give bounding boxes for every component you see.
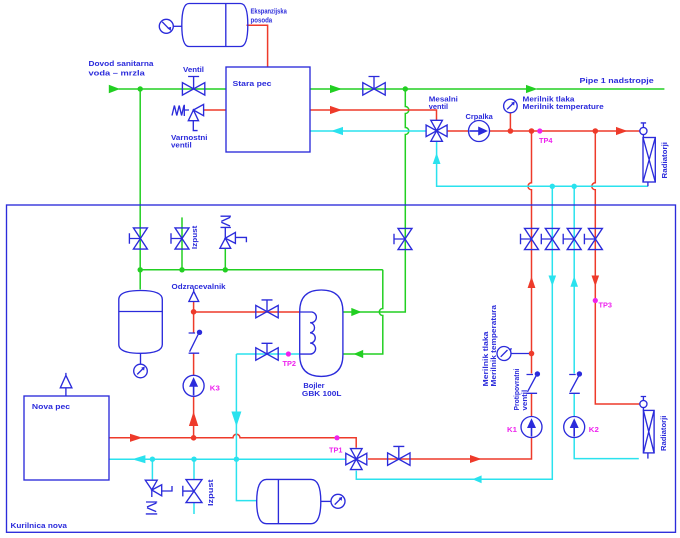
svg-text:Pipe 1 nadstropje: Pipe 1 nadstropje [580,76,654,85]
svg-text:Ventil: Ventil [183,65,204,74]
svg-text:Nova pec: Nova pec [32,402,70,411]
svg-text:Izpust: Izpust [190,225,199,249]
svg-text:Ekspanzijska: Ekspanzijska [251,6,288,15]
svg-text:Kurilnica nova: Kurilnica nova [11,521,68,530]
svg-text:Radiatorji: Radiatorji [659,416,668,451]
svg-text:posoda: posoda [251,15,273,24]
svg-text:K2: K2 [589,425,599,434]
svg-text:TP2: TP2 [283,359,297,368]
svg-text:K1: K1 [507,425,517,434]
svg-text:ventil: ventil [520,390,529,411]
svg-text:ventil: ventil [429,102,448,111]
svg-text:GBK 100L: GBK 100L [302,389,342,398]
svg-text:TP3: TP3 [599,301,613,310]
svg-text:Merilnik temperature: Merilnik temperature [523,102,604,111]
svg-text:K3: K3 [210,384,220,393]
svg-text:TP4: TP4 [539,136,553,145]
svg-text:Odzracevalnik: Odzracevalnik [172,282,227,291]
svg-text:TP1: TP1 [329,446,343,455]
svg-text:Dovod sanitarna: Dovod sanitarna [89,59,155,68]
svg-text:Merilnik temperatura: Merilnik temperatura [489,304,498,386]
svg-text:Stara pec: Stara pec [233,79,272,88]
svg-text:ventil: ventil [171,141,192,150]
svg-text:Radiatorji: Radiatorji [660,142,669,179]
svg-text:Izpust: Izpust [206,479,215,506]
svg-text:Crpalka: Crpalka [466,112,494,121]
svg-text:voda – mrzla: voda – mrzla [89,68,146,77]
